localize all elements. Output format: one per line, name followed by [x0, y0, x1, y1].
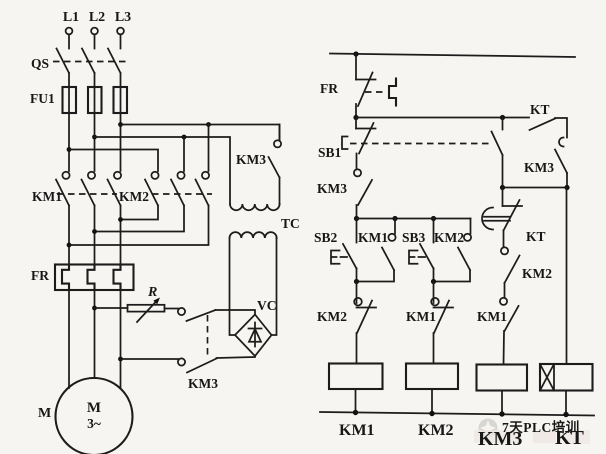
node pole3 feed: [118, 122, 123, 127]
wire pole1 feed to KM2 pole1: [69, 150, 158, 172]
transformer TC primary winding: [230, 204, 280, 210]
wire pole2 feed to KM2 pole2 and TC: [95, 137, 231, 204]
time relay KT NC delayed contact: [482, 188, 546, 245]
node KM1 coil bus: [353, 410, 358, 415]
svg-text:VC: VC: [257, 298, 277, 313]
svg-text:M: M: [38, 406, 51, 421]
contactor KM2 main contact pole3: [196, 172, 210, 206]
svg-text:KM3: KM3: [524, 160, 554, 175]
motor M 3~: [38, 378, 133, 454]
svg-text:KM1: KM1: [358, 230, 388, 245]
svg-text:R: R: [147, 285, 157, 300]
contactor coil KM2: [406, 364, 458, 440]
thermal relay FR heaters: [31, 265, 134, 291]
wire FU1 to KM1 pole3: [120, 113, 122, 171]
wire start branch rail: [357, 218, 471, 220]
wire KT coil branch: [566, 188, 568, 365]
svg-text:KT: KT: [555, 427, 585, 449]
node start branch: [354, 216, 359, 221]
wire TC secondary left to bridge: [230, 238, 236, 335]
svg-text:KM2: KM2: [317, 309, 347, 324]
node KM2 coil bus: [429, 411, 434, 416]
wire KM1 pole1 down: [68, 206, 70, 266]
wire KM3 top contact to rectifier plus: [216, 310, 256, 315]
svg-text:KM1: KM1: [477, 309, 507, 324]
wire KM2 coil to bus: [431, 389, 433, 414]
node brake branch right: [564, 185, 569, 190]
wire KM2 pole3 to pole1 crossover: [69, 206, 209, 246]
time relay KT NO contact: [530, 102, 568, 138]
svg-text:KM2: KM2: [522, 266, 552, 281]
wire KM1 NO to KM3 coil: [503, 331, 506, 365]
node pole1 feed: [67, 147, 72, 152]
wire KM2 pole1 to pole3 crossover: [121, 206, 159, 220]
wire KT NC to KM2 NO: [503, 231, 505, 248]
node KT coil bus: [563, 412, 568, 417]
svg-text:KM3: KM3: [236, 152, 266, 167]
node SB2 KM1 join: [354, 279, 359, 284]
svg-text:L3: L3: [115, 10, 131, 25]
node SB1 NO branch: [500, 115, 505, 120]
svg-text:KT: KT: [526, 229, 546, 244]
svg-text:M: M: [87, 400, 101, 416]
watermark logo: [479, 419, 498, 438]
wire KM1 pole2 down: [94, 206, 96, 266]
terminal L1: [63, 10, 79, 34]
svg-text:KT: KT: [530, 102, 550, 117]
wire tap to resistor R: [95, 307, 128, 309]
wire tap down to KM2 pole2: [183, 137, 185, 171]
node pole2 feed: [92, 135, 97, 140]
contactor KM1 main contact pole2: [82, 172, 96, 206]
wire L2 down to QS: [94, 35, 96, 49]
node KM3 coil bus: [499, 411, 504, 416]
node KM1 aux tap: [392, 216, 397, 221]
fuse FU1 pole3: [30, 87, 127, 113]
contactor KM1 main contact pole1: [56, 172, 70, 206]
node brake branch left: [500, 185, 505, 190]
svg-text:L2: L2: [89, 10, 105, 25]
FR heater element symbol: [389, 79, 396, 106]
time relay coil KT: [540, 364, 593, 391]
SB1 linkage dashed: [350, 143, 489, 145]
wire node to KT contact: [356, 117, 529, 119]
node KM2 pole3 tap: [206, 122, 211, 127]
wire L3 down to QS: [120, 35, 122, 49]
contactor coil KM1: [329, 364, 383, 440]
fuse FU1 pole1: [63, 87, 77, 113]
wire FR contact to node: [355, 104, 357, 118]
control top bus: [330, 54, 575, 58]
KM3 brake linkage dashed: [207, 315, 209, 359]
svg-text:FR: FR: [320, 81, 338, 96]
wire KM2 pole2 to pole2: [95, 206, 185, 232]
contactor KM3 contact for TC primary: [236, 125, 281, 178]
node crossover pole2: [92, 229, 97, 234]
resistor R adjustable: [128, 285, 165, 322]
svg-text:KM2: KM2: [119, 189, 149, 204]
wire FR pole3 to motor: [120, 290, 122, 388]
disconnect switch QS: [31, 49, 126, 74]
node R branch tap: [92, 306, 97, 311]
contactor KM2 NC interlock contact: [317, 282, 376, 334]
svg-text:KM2: KM2: [434, 230, 464, 245]
contactor KM2 main contact pole1: [145, 172, 159, 206]
node FR out: [353, 115, 358, 120]
node crossover pole1: [67, 243, 72, 248]
terminal L3: [115, 10, 131, 34]
wire SB1 to KM3 selfhold: [356, 154, 358, 170]
pushbutton SB1 NC contact: [318, 118, 376, 161]
watermark highlight boxes: [474, 430, 590, 444]
svg-text:SB2: SB2: [314, 230, 338, 245]
svg-text:FR: FR: [31, 268, 49, 283]
terminal L2: [89, 10, 105, 34]
svg-text:KM1: KM1: [406, 309, 436, 324]
wire R to KM3 brake contact top: [165, 308, 179, 310]
wire brake branch join: [503, 187, 568, 189]
wire KM3 bottom contact to rectifier minus: [217, 357, 256, 358]
wire KM1 pole3 down: [120, 206, 122, 266]
svg-text:TC: TC: [281, 216, 300, 231]
node control rail: [353, 51, 358, 56]
wire KM3 selfhold to node: [356, 205, 358, 219]
wire KM3 to TC primary: [279, 178, 281, 205]
svg-text:KM1: KM1: [32, 189, 62, 204]
wire KM1 NC to KM2 coil: [433, 333, 435, 364]
pushbutton SB3 NO contact: [402, 219, 434, 282]
wire FR pole1 to motor: [68, 290, 70, 388]
wire pole3 feed to KM2 pole3 and KM3 branch: [121, 125, 280, 140]
node crossover pole3: [118, 217, 123, 222]
contactor KM3 NO contact right branch: [524, 138, 567, 188]
svg-text:KM2: KM2: [418, 422, 454, 439]
contactor KM2 NO contact brake branch: [501, 247, 552, 283]
wire QS to FU1 pole3: [120, 73, 122, 87]
contactor KM2 aux NO contact: [434, 219, 472, 282]
fuse FU1 pole2: [88, 87, 102, 113]
transformer TC secondary winding: [230, 232, 277, 238]
contactor coil KM3: [477, 365, 528, 391]
node KM2 pole2 tap: [182, 135, 187, 140]
rectifier VC bridge: [235, 298, 277, 356]
svg-text:QS: QS: [31, 56, 49, 71]
contactor KM2 main contact pole2: [171, 172, 185, 206]
wire bus to FR contact: [355, 54, 357, 80]
wire TC secondary right to bridge: [272, 238, 277, 335]
wire KM1 coil to bus: [355, 389, 357, 413]
wire L1 down to QS: [68, 35, 70, 49]
svg-text:FU1: FU1: [30, 91, 55, 106]
wire KM3 coil to bus: [501, 391, 503, 415]
wire tap down to KM2 pole3: [208, 125, 210, 172]
wire KM2 NO to KM1 NO: [504, 283, 506, 298]
svg-text:L1: L1: [63, 10, 79, 25]
contactor KM3 brake contact bottom: [178, 358, 218, 391]
svg-text:KM3: KM3: [188, 376, 218, 391]
contactor KM3 selfhold NO contact: [317, 169, 372, 205]
node SB3 KM2 join: [431, 279, 436, 284]
wire pole3 to KM3 brake contact bottom: [121, 358, 179, 360]
control bottom bus: [320, 412, 594, 416]
node pole3 brake tap: [118, 357, 123, 362]
svg-text:SB3: SB3: [402, 230, 426, 245]
svg-text:KM3: KM3: [478, 428, 522, 450]
contactor KM1 main contact pole3: [108, 172, 122, 206]
KM1 KM2 linkage dashed: [57, 193, 212, 195]
wire FU1 to KM1 pole2: [94, 113, 96, 171]
contactor KM3 brake contact top: [178, 308, 216, 321]
wire KM2 NC to KM1 coil: [356, 333, 358, 364]
FR trip linkage dashed: [365, 91, 385, 93]
svg-text:3~: 3~: [87, 416, 101, 431]
svg-text:SB1: SB1: [318, 145, 342, 160]
contactor KM1 aux NO contact: [357, 219, 396, 282]
wire FR pole2 to motor: [94, 290, 96, 378]
svg-text:KM1: KM1: [339, 422, 375, 439]
svg-text:KM3: KM3: [317, 181, 347, 196]
wire KT coil to bus: [565, 391, 567, 415]
wire FU1 to KM1 pole1: [68, 113, 70, 171]
pushbutton SB1 NO contact (linked): [492, 118, 503, 188]
thermal relay FR NC contact: [320, 73, 376, 107]
contactor KM1 NO contact brake branch: [477, 298, 519, 331]
wire QS to FU1 pole2: [94, 73, 96, 87]
pushbutton SB2 NO contact: [314, 219, 357, 282]
node SB3 tap: [431, 216, 436, 221]
wire QS to FU1 pole1: [68, 73, 70, 87]
contactor KM1 NC interlock contact: [406, 282, 453, 334]
